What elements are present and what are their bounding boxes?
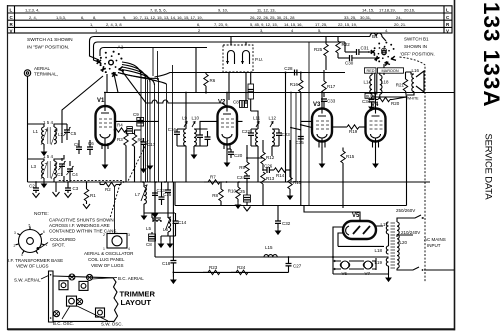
svg-text:3: 3 [128, 233, 130, 237]
trimmer C4 [66, 161, 78, 182]
capacitor C28 [284, 66, 297, 76]
svg-text:16,: 16, [297, 22, 303, 27]
trimmer chassis [49, 271, 119, 322]
label TRIMMER LAYOUT [120, 290, 156, 308]
wire L4 to bus [54, 176, 64, 182]
svg-text:L: L [446, 8, 449, 13]
ground under V2 [224, 149, 231, 167]
svg-text:C6: C6 [88, 141, 94, 146]
capacitor C8 [74, 140, 82, 154]
label RED [365, 68, 377, 73]
svg-text:C9: C9 [133, 112, 139, 117]
wire V5 anode top [304, 206, 383, 227]
svg-text:11, 12, 13,: 11, 12, 13, [257, 8, 276, 13]
svg-text:L3: L3 [31, 164, 37, 169]
svg-text:14, 15,: 14, 15, [362, 8, 374, 13]
lug panel square [103, 233, 130, 251]
svg-text:V: V [446, 28, 449, 33]
wire HT rail [104, 92, 454, 94]
svg-text:5,: 5, [318, 28, 321, 33]
ground under V4 [372, 148, 379, 169]
svg-text:R17: R17 [327, 84, 336, 89]
capacitor C17b [197, 129, 203, 146]
resistor R25 [314, 37, 328, 71]
svg-text:IN "5W" POSITION.: IN "5W" POSITION. [27, 45, 69, 51]
output transformer core [375, 74, 377, 95]
main bus left [28, 181, 431, 183]
svg-text:1 5 4: 1 5 4 [43, 154, 54, 159]
svg-text:SHOWN IN: SHOWN IN [404, 44, 427, 49]
coil L2 [54, 127, 64, 144]
resistor R1 [83, 182, 96, 209]
wire IF2 primary [237, 111, 259, 129]
capacitor C5 [62, 124, 77, 140]
svg-text:R3: R3 [117, 137, 123, 142]
bottom page border [8, 328, 455, 330]
resistor R16 [290, 73, 303, 141]
svg-text:R10: R10 [228, 189, 237, 194]
svg-text:2, 4, 3, 8: 2, 4, 3, 8 [106, 22, 122, 27]
capacitor C6 [87, 140, 94, 155]
svg-text:R16: R16 [290, 82, 299, 87]
svg-text:17,18,19,: 17,18,19, [379, 8, 396, 13]
resistor R15b [287, 170, 302, 200]
svg-text:L10: L10 [192, 116, 200, 121]
svg-text:C18: C18 [162, 261, 171, 266]
wire pickup top [231, 37, 246, 46]
pickup coil left [228, 51, 235, 65]
svg-text:R21: R21 [396, 83, 405, 88]
capacitor C33 [321, 99, 336, 107]
coil L5 [146, 218, 161, 231]
svg-text:1,: 1, [90, 22, 93, 27]
svg-text:8,: 8, [93, 15, 96, 20]
svg-text:5: 5 [29, 224, 31, 228]
svg-text:RED: RED [367, 69, 375, 73]
svg-text:R15: R15 [346, 154, 355, 159]
svg-text:C32: C32 [282, 221, 291, 226]
svg-text:SWITCH A1 SHOWN: SWITCH A1 SHOWN [27, 37, 73, 43]
svg-text:L: L [10, 8, 13, 13]
svg-text:2, 4,: 2, 4, [29, 15, 37, 20]
resistor R12 [261, 140, 275, 170]
speaker L16 [412, 68, 425, 92]
svg-text:VIEW OF LUGS: VIEW OF LUGS [16, 264, 49, 269]
wire L10 bottom to ground [191, 146, 198, 159]
ground bus left [170, 272, 177, 284]
ground under L1 [41, 144, 48, 156]
coil L9 [182, 116, 188, 146]
capacitor C24 [237, 174, 250, 195]
tube V2 [218, 100, 238, 150]
capacitor C16 [168, 127, 180, 146]
wire switch A1 right fan [118, 62, 159, 85]
ground under V3 [319, 148, 326, 169]
resistor R15 [341, 148, 355, 209]
svg-text:R24: R24 [237, 265, 246, 270]
svg-text:SERVICE DATA: SERVICE DATA [484, 134, 495, 201]
wire top loop 3 [100, 48, 207, 57]
svg-text:B1: B1 [372, 34, 378, 40]
dashed mains boundary [400, 57, 426, 282]
svg-text:C30: C30 [345, 61, 354, 66]
resistor R24 [231, 265, 248, 275]
svg-text:COIL LUG PANEL: COIL LUG PANEL [88, 257, 125, 262]
table frame [8, 6, 453, 33]
svg-text:C23: C23 [282, 132, 291, 137]
label BC AERIAL [92, 276, 144, 281]
svg-text:C3: C3 [73, 186, 79, 191]
resistor R17 [322, 70, 336, 97]
svg-text:P.U.: P.U. [255, 57, 263, 62]
svg-text:C5: C5 [71, 131, 77, 136]
tube V4 [366, 102, 386, 148]
resistor R3 [117, 130, 128, 182]
wire x285 drop [285, 73, 287, 183]
svg-text:R13: R13 [266, 176, 275, 181]
svg-text:C14: C14 [178, 220, 187, 225]
svg-text:26, 22, 26, 25, 30, 21, 28: 26, 22, 26, 25, 30, 21, 28 [250, 15, 295, 20]
ground osc 1 [158, 236, 165, 248]
wire mid column bundle [141, 48, 173, 183]
capacitor C18b [205, 131, 211, 146]
svg-text:R19: R19 [349, 129, 358, 134]
left page border [7, 5, 9, 330]
svg-text:L18: L18 [374, 248, 382, 253]
wire switch A1 to left coils [62, 76, 103, 143]
pilot lamp V6 [340, 261, 350, 276]
capacitor C32 [275, 206, 291, 236]
wire top loop 2 [94, 42, 346, 63]
svg-text:33, 25,: 33, 25, [344, 15, 356, 20]
svg-text:6: 6 [43, 230, 45, 234]
ground under C17 [140, 152, 147, 173]
svg-text:L12: L12 [269, 116, 277, 121]
wire B1 down [383, 64, 385, 68]
svg-text:L16: L16 [412, 68, 420, 73]
svg-text:R8: R8 [212, 193, 218, 198]
capacitor C15b [126, 127, 133, 134]
svg-text:L17: L17 [380, 222, 388, 227]
wire speaker leads [406, 72, 415, 95]
svg-text:COLOURED: COLOURED [50, 237, 76, 242]
svg-text:B.C. AERIAL: B.C. AERIAL [118, 276, 144, 281]
pilot lamp V7 [363, 261, 373, 276]
svg-text:R2: R2 [105, 187, 111, 192]
svg-text:1,2,3, 4,: 1,2,3, 4, [25, 8, 39, 13]
svg-text:6,: 6, [81, 15, 84, 20]
coil L7 [135, 182, 147, 214]
capacitor C31 [345, 42, 373, 55]
coil L12 [269, 116, 277, 146]
svg-text:R12: R12 [266, 155, 275, 160]
svg-text:C22: C22 [242, 129, 251, 134]
svg-text:V: V [10, 28, 13, 33]
wire R6 P.U. feed row [155, 73, 346, 78]
svg-text:9, 10,: 9, 10, [218, 8, 228, 13]
resistor R22 [336, 37, 350, 59]
svg-text:1 5 4: 1 5 4 [43, 120, 54, 125]
svg-text:9,: 9, [123, 15, 126, 20]
svg-text:ACROSS I.F. WINDINGS ARE: ACROSS I.F. WINDINGS ARE [49, 223, 110, 228]
wire V2 anode up [226, 93, 228, 107]
label SW OSC [77, 306, 123, 327]
coil L3 [31, 161, 44, 178]
wire aerial terminal down [27, 76, 29, 182]
ground under L3 [41, 178, 48, 188]
svg-text:C33: C33 [327, 99, 336, 104]
svg-text:S.W. AERIAL: S.W. AERIAL [14, 278, 41, 283]
dashed gang line [58, 140, 148, 218]
aerial terminal [24, 66, 58, 77]
resistor R2 [100, 182, 121, 192]
svg-text:V1: V1 [97, 98, 105, 104]
svg-text:TERMINAL,: TERMINAL, [34, 72, 58, 77]
svg-text:R7: R7 [210, 175, 216, 180]
resistor R7 [204, 175, 224, 185]
svg-text:R9: R9 [239, 165, 245, 170]
svg-text:250/260V: 250/260V [396, 208, 415, 213]
svg-text:C8: C8 [233, 100, 239, 105]
trimmer square mid [67, 296, 77, 306]
capacitor C25 [237, 189, 251, 211]
svg-text:CONTAINED WITHIN THE CANS.: CONTAINED WITHIN THE CANS. [49, 229, 118, 234]
resistor R20 [375, 97, 407, 106]
svg-text:20,16,: 20,16, [404, 8, 415, 13]
capacitor C8b [146, 234, 156, 247]
ground arrow mid [53, 182, 60, 197]
pickup arrows [226, 61, 244, 64]
table row V numbers [95, 28, 388, 33]
wire fan line 6 [118, 73, 167, 85]
output transformer secondary L18 [380, 75, 389, 94]
ground L7 [141, 213, 148, 220]
label SW AERIAL [14, 276, 49, 283]
svg-text:14, 15,: 14, 15, [284, 22, 296, 27]
svg-text:R1: R1 [90, 193, 96, 198]
resistor R9 [239, 158, 249, 174]
svg-text:C28: C28 [284, 66, 293, 71]
resistor R21 [396, 72, 408, 97]
tube V5 [343, 213, 376, 239]
coil L4 [54, 161, 56, 178]
wire x196 drop [195, 48, 197, 93]
resistor R13 [261, 172, 275, 206]
wire transformer left taps [388, 234, 390, 272]
ground osc 2 [167, 236, 174, 248]
svg-text:22, 15, 19,: 22, 15, 19, [338, 22, 357, 27]
tube V1 [96, 98, 116, 149]
svg-text:20, 21.: 20, 21. [394, 22, 406, 27]
IF base caption [8, 258, 63, 269]
coil L10 [192, 116, 200, 146]
svg-text:L11: L11 [253, 116, 261, 121]
coil L15 [264, 245, 277, 257]
svg-text:133 133A: 133 133A [479, 2, 500, 108]
svg-text:R6: R6 [210, 78, 216, 83]
svg-text:R25: R25 [314, 47, 323, 52]
capacitor C29 [290, 121, 312, 205]
svg-text:AERIAL & OSCILLATOR: AERIAL & OSCILLATOR [84, 251, 134, 256]
transformer winding L17 [380, 222, 388, 234]
capacitor C13 [152, 182, 166, 218]
svg-text:L14: L14 [363, 80, 371, 85]
capacitor C27 [286, 257, 302, 272]
capacitor C23 [276, 129, 290, 146]
resistor R8 [212, 182, 223, 206]
wire V1 anode up [104, 93, 106, 107]
wire IF1 tops and bottoms [177, 129, 208, 146]
wire IF2 secondary down [258, 146, 272, 182]
svg-text:V3: V3 [313, 102, 321, 108]
table row C numbers [29, 15, 402, 20]
wire switch to V2 top cap [122, 71, 227, 107]
label BLUE [365, 93, 376, 98]
mains transformer core [391, 223, 396, 268]
svg-text:C24: C24 [237, 175, 246, 180]
capacitor C17 [141, 138, 156, 152]
trimmer square 2 [79, 281, 88, 290]
svg-text:C31: C31 [361, 46, 370, 51]
svg-text:30,31,: 30,31, [360, 15, 371, 20]
resistor R5 [132, 130, 143, 182]
resistor R6 [204, 72, 216, 94]
svg-text:10, 7, 11, 12, 15, 13, 14, 16,: 10, 7, 11, 12, 15, 13, 14, 16, 15, 17, 1… [133, 15, 203, 20]
svg-text:C26: C26 [264, 164, 273, 169]
ground transformer [385, 272, 392, 282]
svg-text:C27: C27 [293, 264, 302, 269]
resistor R14 [274, 168, 290, 178]
capacitor C30 [338, 55, 380, 66]
capacitor C26 [263, 164, 274, 174]
coil core L3 L4 [48, 161, 50, 178]
wire V4 anode up [375, 93, 377, 109]
svg-text:7, 23, 9,: 7, 23, 9, [214, 22, 228, 27]
wire L1 L2 tops [28, 124, 63, 127]
wire R17 down [323, 106, 325, 109]
table row R numbers [90, 22, 406, 27]
svg-text:S.W. OSC.: S.W. OSC. [101, 322, 123, 327]
IF base circle [14, 224, 48, 258]
wire to lug panel [114, 186, 116, 234]
svg-text:SWITCH B1: SWITCH B1 [404, 37, 429, 42]
trimmer C1 [57, 158, 66, 177]
svg-text:SPOT.: SPOT. [52, 243, 65, 248]
wire bottom bus [155, 256, 389, 258]
svg-text:1,5,3,: 1,5,3, [56, 15, 66, 20]
svg-text:AC MAINS: AC MAINS [424, 237, 446, 242]
svg-text:17, 25,: 17, 25, [315, 22, 327, 27]
wire osc joins [144, 213, 176, 236]
wire lower box [175, 97, 407, 206]
capacitor C18 [162, 257, 176, 272]
wire L10 top to V2 grid [200, 121, 218, 129]
wire lower bus2 [173, 271, 288, 273]
svg-text:2: 2 [14, 244, 16, 248]
wire top loop 1 [90, 37, 371, 61]
trimmer screw 1 [69, 274, 75, 280]
svg-text:4: 4 [21, 253, 23, 257]
table row L numbers [25, 8, 415, 13]
label AC MAINS INPUT [424, 237, 446, 248]
wire R9 top joins [247, 145, 263, 158]
svg-text:V5: V5 [352, 213, 360, 219]
svg-text:R14: R14 [276, 173, 285, 178]
svg-text:LAYOUT: LAYOUT [121, 298, 152, 307]
svg-text:L9: L9 [182, 116, 188, 121]
wire mains taps [397, 215, 424, 237]
svg-text:L20: L20 [400, 240, 408, 245]
capacitor C3 [65, 182, 79, 198]
resistor R19 [332, 125, 366, 134]
table row labels right [446, 8, 450, 34]
svg-text:L1: L1 [33, 129, 39, 134]
capacitor C21 boxed [248, 73, 254, 112]
wire R14 riser [289, 140, 291, 170]
coil core L1 L2 [48, 127, 50, 144]
svg-text:INPUT: INPUT [427, 243, 441, 248]
capacitor C11 [165, 182, 171, 213]
svg-text:L7: L7 [135, 192, 141, 197]
wire switch A1 down to V1 [106, 74, 108, 93]
svg-text:5, 45, 9, 12, 15,: 5, 45, 9, 12, 15, [250, 22, 278, 27]
junction dots on bus [35, 92, 291, 274]
trimmer screw 2 [87, 274, 93, 280]
tube V3 [312, 102, 332, 148]
svg-text:3,: 3, [260, 28, 263, 33]
svg-text:R4: R4 [117, 123, 123, 128]
switch A1 [97, 45, 124, 77]
coloured spot label [40, 237, 76, 248]
wire IF1 primary to V1 [185, 92, 187, 182]
svg-text:R22: R22 [342, 42, 351, 47]
trimmer screw low [54, 311, 60, 317]
trimmer screw mid [77, 299, 83, 305]
svg-text:C35: C35 [296, 140, 305, 145]
transformer winding L18b [374, 246, 388, 254]
junction dots row [285, 72, 302, 74]
pickup dashed box [223, 45, 253, 72]
svg-text:C34: C34 [362, 99, 371, 104]
table row labels left [10, 8, 14, 34]
svg-text:210/240V: 210/240V [401, 230, 420, 235]
svg-text:L5: L5 [146, 226, 152, 231]
svg-text:R23: R23 [209, 265, 218, 270]
svg-text:NOTE:: NOTE: [34, 211, 49, 217]
wire switch A1 down right [114, 74, 118, 93]
wire lamp row [333, 257, 389, 274]
svg-text:R20: R20 [391, 101, 400, 106]
svg-text:24,: 24, [396, 15, 402, 20]
capacitor C19 at V2 [233, 100, 248, 108]
wire IF2 tops bottoms [251, 129, 279, 146]
svg-text:C4: C4 [72, 172, 78, 177]
lamp arrows [334, 260, 337, 270]
wire osc riser to bottom bus [172, 182, 174, 257]
label BC OSC [53, 306, 74, 326]
trimmer square 1 [59, 281, 68, 290]
svg-text:L2: L2 [58, 132, 64, 137]
svg-text:CAPACITIVE SHUNTS SHOWN: CAPACITIVE SHUNTS SHOWN [49, 218, 114, 223]
right page border [454, 0, 456, 330]
coil L11 [253, 116, 261, 146]
svg-text:C25: C25 [237, 189, 246, 194]
wire transformer bottom row [372, 96, 407, 98]
wire V5 leads left [333, 227, 384, 257]
resistor R4 [114, 123, 126, 133]
coil L6 [163, 213, 171, 236]
capacitor C2 [29, 182, 40, 198]
